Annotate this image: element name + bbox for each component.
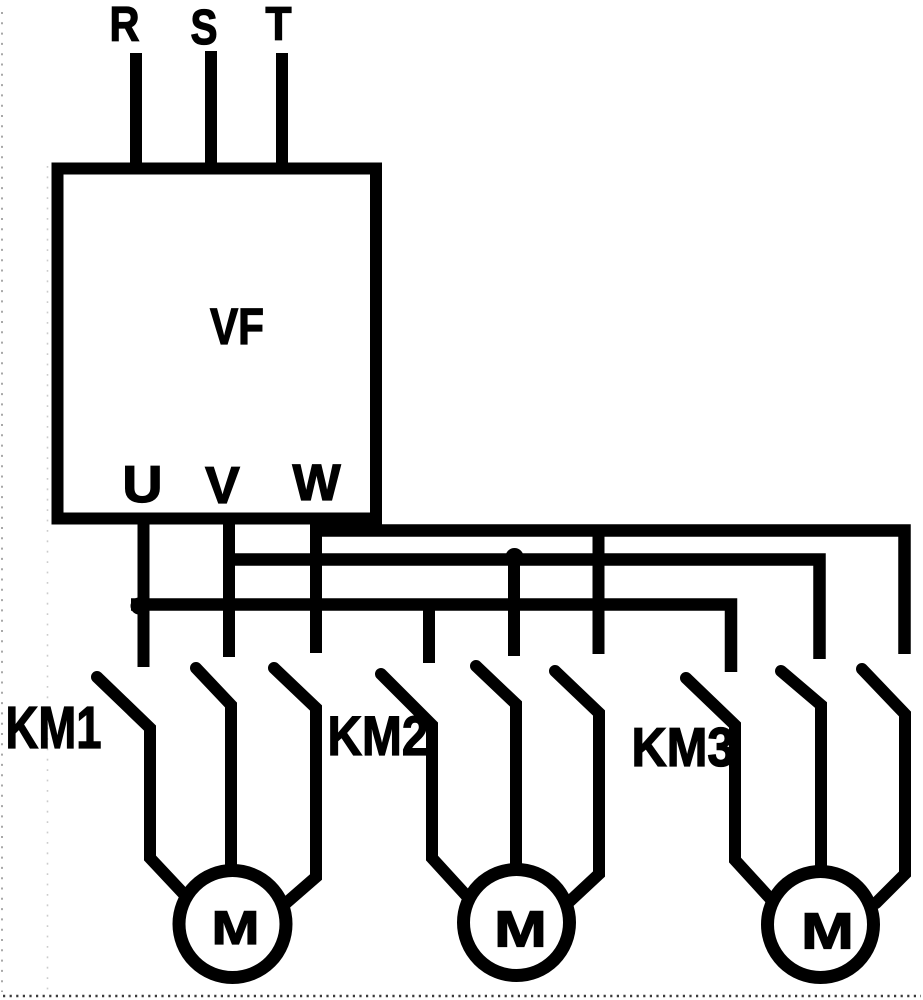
pin label V — [205, 457, 240, 515]
wire U bus — [131, 605, 731, 673]
wire U output — [138, 518, 150, 667]
contactor KM3 pole 1 — [686, 678, 777, 906]
contactor KM2 pole 1 — [381, 674, 474, 904]
inverter VF box — [58, 169, 377, 519]
wire W output — [310, 518, 322, 653]
svg-text:T: T — [266, 0, 292, 50]
contactor KM1 pole 2 — [196, 668, 231, 869]
wire KM2 pole1 drop — [423, 604, 435, 663]
contactor KM3 pole 2 — [781, 671, 821, 869]
wire V output — [223, 518, 235, 657]
node R label — [110, 0, 140, 52]
svg-text:M: M — [494, 901, 547, 958]
motor M3 label — [801, 903, 854, 960]
wire W bus — [311, 531, 905, 655]
svg-text:V: V — [205, 457, 240, 515]
junction dot U bus — [131, 598, 148, 615]
motor M2 label — [494, 901, 547, 958]
contactor KM3 pole 3 — [862, 669, 905, 903]
motor M1 label — [212, 903, 260, 955]
svg-text:U: U — [122, 456, 162, 514]
svg-text:KM1: KM1 — [6, 695, 102, 761]
wire KM2 pole2 drop — [508, 559, 520, 656]
pin label U — [122, 456, 162, 514]
svg-text:S: S — [191, 0, 218, 55]
wire R input — [130, 53, 142, 172]
node S label — [191, 0, 218, 55]
label KM2 — [328, 704, 429, 767]
svg-text:M: M — [212, 903, 260, 955]
node T label — [266, 0, 292, 50]
contactor KM2 pole 2 — [476, 666, 516, 868]
contactor KM1 pole 3 — [274, 668, 316, 904]
contactor KM2 pole 3 — [555, 671, 599, 902]
svg-text:R: R — [110, 0, 140, 52]
contactor KM1 pole 1 (blade + lead) — [97, 677, 196, 907]
svg-text:W: W — [292, 454, 341, 511]
wire V bus — [223, 560, 820, 660]
svg-text:VF: VF — [210, 298, 264, 355]
svg-text:M: M — [801, 903, 854, 960]
wire KM2 pole3 drop — [593, 530, 605, 654]
motor M1 circle — [179, 871, 286, 978]
junction dot V bus — [506, 548, 524, 566]
wire T input — [276, 53, 288, 172]
label VF — [210, 298, 264, 355]
label KM1 — [6, 695, 102, 761]
svg-text:KM3: KM3 — [632, 716, 735, 778]
pin label W — [292, 454, 341, 511]
wire S input — [205, 51, 217, 172]
motor M3 circle — [768, 872, 874, 978]
label KM3 — [632, 716, 735, 778]
motor M2 circle — [464, 870, 570, 976]
